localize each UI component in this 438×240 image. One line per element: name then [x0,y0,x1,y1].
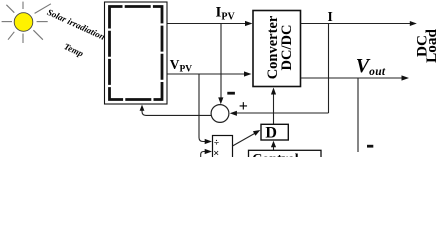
sun [2,2,51,43]
block D [261,124,288,141]
wire I out (converter to load) [301,21,417,26]
wire I feedback (I line down and into summer +) [230,24,329,116]
summing junction [211,105,229,123]
wire summer output to panel [140,105,212,116]
label Solar irradiation [46,7,107,42]
label Temp [62,41,85,59]
wire V_PV (panel to converter) [168,71,252,76]
wire D to converter [271,88,276,125]
block Control [249,150,322,167]
wire I_PV branch down to summer [218,24,223,105]
divider block (P = V / I) [213,136,233,162]
svg-text:I: I [328,9,333,24]
svg-text:Load: Load [423,29,438,63]
wire V_out branch down [357,78,359,152]
wire I_PV (panel to converter) [168,21,253,26]
PV panel [105,2,168,104]
svg-text:÷: ÷ [214,138,219,148]
wire V_out (converter to load) [301,75,409,80]
svg-text:Control: Control [252,152,299,157]
label DC Load [414,29,438,63]
svg-text:×: × [213,149,219,157]
svg-text:DC/DC: DC/DC [279,25,295,71]
converter U1 DC/DC [253,11,301,87]
label minus (summer top) [227,92,235,95]
wire control to D [271,141,276,150]
svg-text:D: D [265,125,277,142]
wire divider to D [233,130,261,146]
wire V_PV branch to divider [199,74,212,144]
label minus (bottom right) [367,145,373,148]
wire lower input to divider [201,149,212,158]
